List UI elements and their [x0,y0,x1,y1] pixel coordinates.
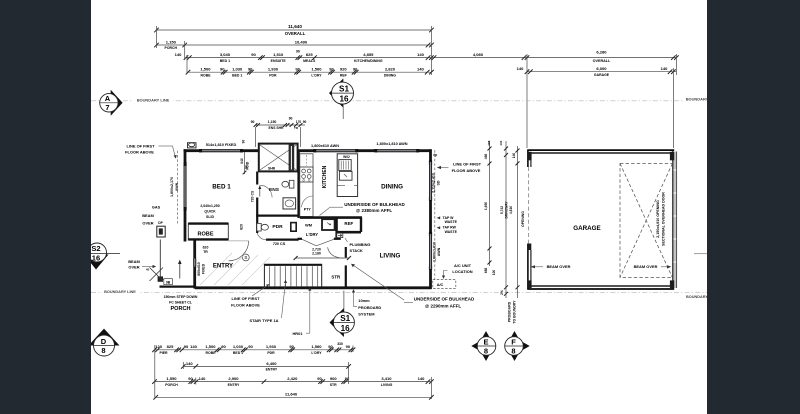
svg-text:TAP RW: TAP RW [443,226,457,230]
porch left edge [159,240,161,280]
svg-text:VOID: VOID [246,161,250,170]
svg-text:PIER: PIER [159,351,168,355]
stair treads [270,266,318,287]
svg-text:AWN: AWN [175,182,179,191]
svg-text:ENTRY: ENTRY [213,264,233,270]
right edge stray line [694,253,707,255]
garage top wall (double line) [527,149,674,151]
plumbing stack leader [345,238,348,242]
svg-text:1,800x2,170: 1,800x2,170 [170,177,174,197]
svg-text:REF: REF [340,73,347,77]
cooktop [300,167,313,182]
svg-text:8: 8 [101,346,105,355]
svg-text:WM: WM [305,223,313,228]
svg-text:BOUNDARY LINE: BOUNDARY LINE [137,98,170,103]
svg-text:140: 140 [186,361,194,366]
white drawing sheet [91,0,707,414]
dim extension lines garage top [526,54,528,148]
vanity pdr dark [291,223,296,232]
boundary line top [91,100,707,102]
leader HR01 [306,332,310,334]
dim row bottom 11,640 [153,392,433,400]
svg-text:140: 140 [512,153,516,159]
svg-text:OVER: OVER [128,264,139,269]
svg-text:D: D [101,337,107,346]
svg-text:PORCH: PORCH [165,46,178,50]
svg-text:16: 16 [341,324,351,333]
wall ldry top band [300,216,362,219]
robe box [188,223,228,240]
svg-text:PLUMBING: PLUMBING [350,242,371,247]
dashed line first floor above (left) [176,151,178,224]
svg-text:S: S [244,255,247,260]
boundary line bottom [91,292,707,294]
svg-text:L'DRY: L'DRY [311,73,322,77]
svg-text:140: 140 [417,52,425,57]
boundary bottom right label [686,295,708,299]
svg-text:90: 90 [353,67,358,72]
vertical dim line driveway 1 [484,141,492,273]
svg-text:BEAM OVER: BEAM OVER [547,264,571,269]
porch entry arrow [178,260,182,279]
svg-text:625: 625 [306,52,314,57]
dim row garage overall 6,280 [527,55,679,60]
svg-text:688: 688 [484,268,488,274]
door ens swing [260,185,272,197]
svg-text:120: 120 [155,344,163,349]
svg-text:BED 1: BED 1 [233,351,243,355]
svg-text:GARAGE: GARAGE [573,225,600,232]
svg-text:16: 16 [339,95,349,104]
svg-text:170: 170 [296,120,302,124]
svg-text:1,030: 1,030 [233,344,244,349]
svg-text:PROBOARD: PROBOARD [358,305,381,310]
svg-text:LIVING: LIVING [380,252,401,259]
svg-text:4,855: 4,855 [363,52,374,57]
svg-text:1,800x1,810 AWN: 1,800x1,810 AWN [376,142,407,146]
svg-text:11,640: 11,640 [288,24,302,29]
svg-text:1,560: 1,560 [311,344,322,349]
svg-text:90: 90 [303,120,307,124]
boundary line top label [133,97,173,103]
svg-text:10,490: 10,490 [295,40,308,45]
svg-text:OVERALL: OVERALL [593,59,611,63]
svg-text:2,150x4,810 OPENING: 2,150x4,810 OPENING [656,200,660,238]
svg-text:330: 330 [337,342,343,346]
svg-text:SD: SD [436,180,440,185]
svg-text:BEAM: BEAM [128,259,140,264]
svg-text:640: 640 [240,158,244,164]
svg-text:900: 900 [330,376,338,381]
svg-text:ENTRY: ENTRY [228,383,240,387]
svg-text:1,560: 1,560 [311,67,322,72]
svg-text:SHR: SHR [268,166,276,170]
a/c dashed box [433,280,456,289]
svg-text:1,150: 1,150 [268,120,277,124]
svg-text:STR: STR [330,383,337,387]
leader left floor-above [159,145,173,147]
svg-text:1,930: 1,930 [266,344,277,349]
svg-text:PORCH: PORCH [165,383,178,387]
dim string ENS SHR 1,150 [251,116,307,147]
smoke detector S [242,254,249,261]
wall ref right [360,218,362,232]
svg-text:STACK: STACK [350,248,363,253]
svg-text:ROBE: ROBE [205,351,216,355]
leader right floor-above arrow [440,167,449,169]
svg-text:LINE OF FIRST: LINE OF FIRST [453,162,482,167]
svg-text:S2: S2 [91,244,100,253]
svg-text:BEAM OVER: BEAM OVER [634,264,658,269]
svg-text:LINE OF FIRST: LINE OF FIRST [232,296,261,301]
dim row bottom overall rooms [152,376,434,387]
svg-text:dp: dp [433,153,437,157]
stair left edge [263,264,265,287]
svg-text:STAIR TYPE 1A: STAIR TYPE 1A [249,318,278,323]
svg-text:DINING: DINING [381,184,403,191]
garage left wall lower [527,244,529,290]
tap arrows [437,216,441,219]
svg-text:TAP W: TAP W [443,216,455,220]
svg-text:5,742: 5,742 [500,206,504,214]
svg-text:6,400: 6,400 [266,361,277,366]
dim extension lines top-left [156,26,158,48]
svg-text:S1: S1 [340,314,350,323]
svg-text:TR: TR [203,250,208,254]
dashed line first floor above (right) [434,150,436,290]
svg-text:LOCATION: LOCATION [452,269,472,274]
garage left wall upper [527,150,529,168]
svg-text:140: 140 [418,376,426,381]
right wall jamb blocks [429,160,432,269]
leader underside of bulkhead 2290 [353,265,405,300]
dim row garage 6,000 [517,66,677,77]
svg-text:10mm: 10mm [358,298,370,303]
porch pier post [157,226,165,237]
svg-text:OPENING: OPENING [521,211,525,227]
wall str right jamb [345,247,347,258]
svg-text:PROBOARD: PROBOARD [508,301,512,322]
svg-text:ROBE: ROBE [197,232,213,238]
label 9B box [164,279,173,285]
wall ldry right [335,218,337,239]
svg-text:468: 468 [487,140,491,145]
svg-text:2,820: 2,820 [385,67,396,72]
svg-text:90: 90 [289,344,294,349]
svg-text:@ 2380mm AFFL: @ 2380mm AFFL [356,208,392,213]
svg-text:1,930: 1,930 [268,67,279,72]
svg-text:FC SHEET CL: FC SHEET CL [169,300,193,304]
svg-text:90: 90 [289,116,293,120]
window entry 800x610 fixed [193,259,195,267]
window jamb blocks top wall [199,149,419,152]
svg-text:BED 1: BED 1 [212,184,231,191]
wall ens/bed1 [256,172,258,185]
svg-text:WASTE: WASTE [445,220,458,224]
svg-text:OVERALL: OVERALL [285,31,306,36]
window dining 1,800x1,810 awn [376,149,418,151]
garage right wall / sectional door band [673,152,677,289]
kitchen island bench [337,154,357,197]
svg-text:PDR: PDR [267,351,275,355]
svg-text:F: F [511,338,516,347]
svg-text:A/C UNIT: A/C UNIT [454,263,472,268]
svg-text:BED 1: BED 1 [232,73,242,77]
svg-text:2,180: 2,180 [312,252,321,256]
svg-text:90: 90 [329,67,334,72]
garage left wall opening (dashed) [528,167,530,244]
svg-text:SLID: SLID [206,215,214,219]
svg-text:KITCHEN/DINING: KITCHEN/DINING [354,59,383,63]
leader line of first floor above (stairs) [252,285,268,296]
svg-text:140: 140 [417,67,425,72]
svg-text:620: 620 [203,246,209,250]
entry floor hatch (faint) [200,253,270,285]
elevation marker A/7 [100,90,123,116]
svg-text:90: 90 [221,344,226,349]
svg-text:REF: REF [344,221,353,226]
elevation marker D/8 bottom left [89,329,120,356]
svg-text:820: 820 [239,224,243,230]
dim row entry 6,400 [181,361,351,372]
door ens arrow [259,188,261,197]
svg-text:ROBE: ROBE [200,73,211,77]
wall ens/kitchen [297,151,299,218]
svg-text:2,420: 2,420 [287,376,298,381]
window living right 1,800x1,810 awn [428,234,430,269]
svg-text:BOUNDARY LINE: BOUNDARY LINE [104,290,136,294]
svg-text:90: 90 [251,52,256,57]
svg-text:FIXED: FIXED [202,263,206,274]
svg-text:DINING: DINING [384,73,396,77]
elevation marker F/8 [505,331,530,361]
a/c leader hook [444,271,448,277]
wall pdr bottom [266,239,299,241]
svg-text:BEAM: BEAM [142,213,154,218]
svg-text:WASTE: WASTE [445,230,458,234]
svg-text:90: 90 [345,376,350,381]
svg-text:ENTRY: ENTRY [266,368,278,372]
svg-text:1,550: 1,550 [166,376,177,381]
porch bottom slab edge [160,286,196,288]
svg-text:140: 140 [661,66,669,71]
svg-text:514x1,810 FIXED: 514x1,810 FIXED [206,143,237,147]
door bed1 swing [229,241,249,261]
svg-text:A/C: A/C [437,283,444,287]
svg-text:1,500: 1,500 [200,67,211,72]
svg-text:825: 825 [167,344,175,349]
toilet pdr [257,223,269,231]
stair top wall [264,264,321,266]
section marker S1 top [329,78,354,119]
svg-text:L'DRY: L'DRY [306,232,318,237]
leader underside of bulkhead 2380 [330,206,343,208]
vertical dim line driveway 2 [492,146,519,298]
svg-text:2,040x1,250: 2,040x1,250 [200,204,219,208]
stair right edge [321,264,323,287]
svg-text:PDR: PDR [272,224,283,230]
boundary line bottom label [102,289,139,295]
bottom extension lines [154,345,156,399]
svg-text:2%: 2% [500,290,504,295]
wall entry lower-left [193,241,196,289]
svg-text:KITCHEN: KITCHEN [322,165,328,188]
leader 10mm proboard [353,292,355,307]
vertical dim line driveway middle [504,141,508,298]
svg-text:1,500: 1,500 [205,344,216,349]
svg-text:SYSTEM: SYSTEM [358,311,375,316]
porch corner block [158,276,163,281]
svg-text:OVER: OVER [142,220,153,225]
svg-text:6,000: 6,000 [596,66,607,71]
section marker S2/16 left [84,243,120,270]
ldry bottom wall stubs and doors [298,238,303,240]
downpipe DP top-left [188,143,197,148]
svg-text:PDR: PDR [269,73,277,77]
boundary top right label [684,96,709,102]
svg-text:90: 90 [317,376,322,381]
shower niche dark strip [289,145,295,172]
svg-text:4,810: 4,810 [509,206,513,214]
vanity ens [283,198,296,209]
garage bottom wall (double line) [527,285,674,287]
wall ref bottom band [337,231,361,234]
wall house bottom [195,286,432,289]
svg-text:2,900: 2,900 [228,376,239,381]
window jamb blocks left wall [184,162,187,211]
svg-text:FLOOR ABOVE: FLOOR ABOVE [452,168,481,173]
dim row overall 11,640 top [154,28,434,33]
svg-text:1,800x1,810: 1,800x1,810 [432,242,436,262]
svg-text:ENS: ENS [269,187,280,193]
svg-text:BOUNDARY: BOUNDARY [686,96,709,101]
svg-text:UNDERSIDE OF BULKHEAD: UNDERSIDE OF BULKHEAD [344,202,405,207]
porch 45 cross mark [146,268,167,282]
svg-text:100: 100 [492,270,496,276]
svg-text:90: 90 [241,140,245,144]
toilet ens [282,180,294,188]
svg-text:11,640: 11,640 [285,392,298,397]
wall house right [429,149,432,289]
label BEAM OVER garage right [634,264,672,269]
svg-text:3,040: 3,040 [220,52,231,57]
svg-text:720 CS: 720 CS [251,190,255,202]
svg-text:920: 920 [340,67,348,72]
svg-text:LINE OF FIRST: LINE OF FIRST [127,143,156,148]
wall house top [184,149,432,152]
svg-text:GARAGE: GARAGE [594,73,610,77]
svg-text:L'DRY: L'DRY [311,351,322,355]
svg-text:E: E [483,338,488,347]
svg-text:MEALS: MEALS [303,59,316,63]
elevation marker E/8 [471,331,496,361]
svg-text:9B: 9B [166,280,171,284]
garage door dashed zone [620,164,672,278]
svg-text:90: 90 [188,376,193,381]
door living swing [328,247,344,258]
svg-text:8: 8 [511,347,515,356]
svg-text:90: 90 [220,67,225,72]
section marker S1 bottom [330,291,355,338]
dim row 10,490 [154,39,434,50]
svg-text:QUICK: QUICK [204,209,216,213]
svg-text:150mm STEP DOWN: 150mm STEP DOWN [164,295,198,299]
svg-text:90: 90 [328,344,333,349]
svg-text:140: 140 [199,376,207,381]
svg-text:UNDERSIDE OF BULKHEAD: UNDERSIDE OF BULKHEAD [414,297,475,302]
dim 90/640 jamb (rotated) [240,140,248,175]
svg-text:90: 90 [248,344,253,349]
svg-text:DRIVEWAY: DRIVEWAY [505,201,509,219]
svg-text:BED 1: BED 1 [220,59,230,63]
window bed1 left 1,800x2,170 awn [183,165,185,210]
dim row rooms upper [175,52,434,63]
wall pdr top [256,215,298,217]
dim row rooms lower [186,67,434,78]
svg-text:PORCH: PORCH [170,306,190,312]
dim line entry hall [294,256,351,260]
svg-text:STR: STR [331,275,341,280]
svg-text:720 CS: 720 CS [273,242,286,246]
svg-text:S1: S1 [339,84,349,93]
svg-text:@ 2290mm AFFL: @ 2290mm AFFL [425,303,461,308]
door pdr swing [257,233,266,240]
shower SHR box [259,144,298,172]
svg-text:800x610: 800x610 [197,262,201,276]
laundry tub [322,219,335,230]
svg-text:90: 90 [248,67,253,72]
svg-text:1,510: 1,510 [273,52,284,57]
svg-text:6,280: 6,280 [596,50,607,55]
dim row bottom rooms [152,344,355,355]
svg-text:90: 90 [296,50,300,54]
svg-text:45: 45 [146,268,150,272]
svg-text:140: 140 [175,52,183,57]
svg-text:7: 7 [105,103,109,112]
svg-text:FLOOR ABOVE: FLOOR ABOVE [231,302,260,307]
svg-text:1,800x610 AWN: 1,800x610 AWN [311,144,339,148]
sliding door right 2,110x2,410 SD [428,162,430,200]
svg-text:4,060: 4,060 [473,52,484,57]
svg-text:90: 90 [251,120,255,124]
svg-text:BOUNDARY: BOUNDARY [686,295,708,299]
window bed1 514x1,810 fixed [201,149,242,151]
kitchen tall cabinets / pantry run [300,154,313,217]
svg-text:90: 90 [346,344,351,349]
dim 4,060 between house and garage [431,52,529,60]
svg-text:HR01: HR01 [292,331,303,336]
svg-text:90: 90 [184,344,189,349]
svg-text:1,030: 1,030 [232,67,243,72]
svg-text:90: 90 [295,67,300,72]
label BEAM OVER garage left [531,264,571,269]
svg-text:PTY: PTY [304,207,312,211]
wall house left [184,149,187,241]
pantry door arc [302,196,313,207]
wall pdr left [256,216,258,233]
svg-text:1,650: 1,650 [484,202,488,210]
svg-text:GAS: GAS [152,205,161,209]
garage corner blocks [527,152,531,161]
svg-text:TO BOUNDRY: TO BOUNDRY [513,300,517,324]
svg-text:140: 140 [499,140,503,145]
svg-text:3,410: 3,410 [381,376,392,381]
svg-text:140: 140 [517,66,525,71]
window kitchen 1,800x610 awn [315,149,357,151]
svg-text:1,150: 1,150 [166,39,177,44]
svg-text:LIVING: LIVING [381,383,393,387]
svg-text:ENS SHR: ENS SHR [269,126,285,130]
